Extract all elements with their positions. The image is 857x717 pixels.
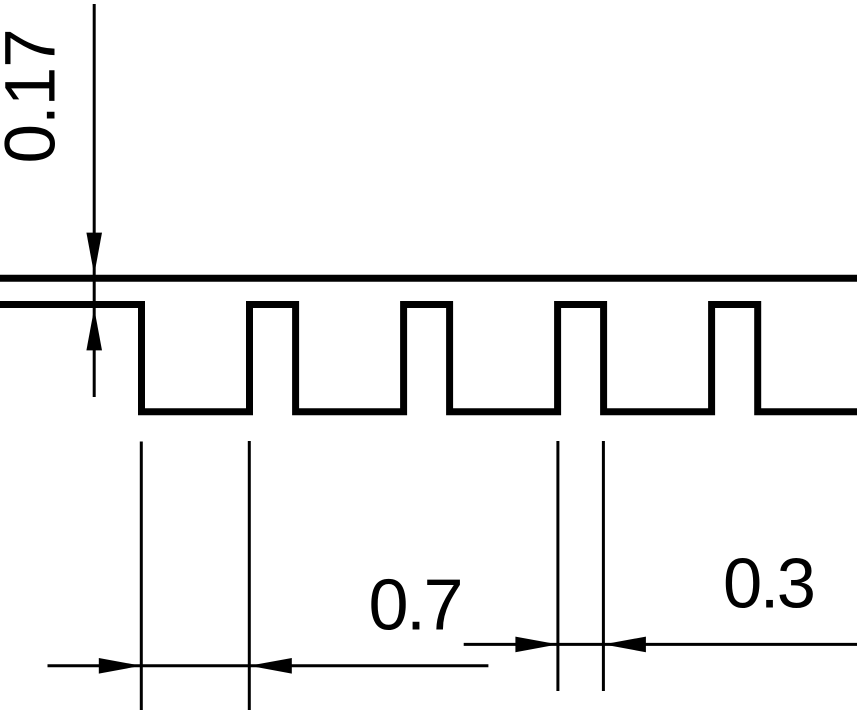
svg-text:0.7: 0.7 [369,565,462,645]
dimension 0.3 left arrowhead [515,637,558,653]
top surface line (copper top) [0,275,857,282]
svg-text:0.3: 0.3 [723,543,814,622]
dimension 0.3 line [464,643,857,646]
dimension 0.7 left arrowhead [99,658,142,674]
extension line at right edge of 0.7 gap [248,441,251,710]
extension line at right edge of 0.3 tooth [602,441,605,691]
dimension 0.7 right arrowhead [249,658,291,674]
dimension 0.17 down arrowhead [86,233,102,275]
dimension 0.17 up arrowhead [86,308,102,350]
svg-text:0.17: 0.17 [0,29,71,163]
dimension 0.3 right arrowhead [603,637,646,653]
extension line at left edge of 0.3 tooth [556,441,559,691]
comb profile (etched grating cross-section) [0,305,857,412]
dimension 0.7 line [48,664,489,667]
dimension 0.17 vertical leader line [93,4,96,397]
extension line at left edge of 0.7 gap [140,442,143,711]
